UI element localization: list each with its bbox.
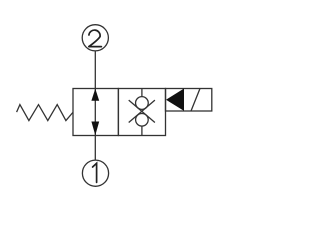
spring: [17, 105, 73, 121]
seat line X (down-right): [129, 100, 155, 122]
label 1: [93, 163, 97, 182]
wire stub top of check: [141, 89, 143, 97]
solenoid box U1: [166, 89, 212, 112]
valve body right square: [118, 89, 165, 136]
check ball upper circle: [136, 97, 149, 110]
wire valve to port1: [94, 136, 96, 161]
node 1 (port circle): [82, 160, 108, 186]
check ball lower circle: [136, 114, 149, 127]
solenoid slash: [191, 89, 200, 112]
label 2: [89, 30, 102, 47]
arrow down (flow direction): [91, 122, 99, 136]
seat line X (up-right): [129, 100, 155, 122]
solenoid armature triangle: [166, 89, 184, 111]
valve body left square: [73, 89, 118, 136]
wire port2 to valve: [94, 51, 96, 89]
arrow up (flow direction): [91, 89, 99, 101]
wire stub bottom of check: [141, 126, 143, 135]
node 2 (port circle): [82, 25, 108, 51]
flow path arrow line: [94, 89, 96, 136]
